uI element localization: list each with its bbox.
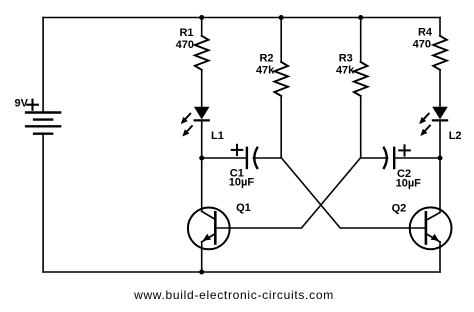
wire top rail to R3 (360, 18, 362, 63)
node Q1 emitter to bottom rail (199, 270, 204, 275)
svg-text:R2: R2 (259, 53, 273, 65)
LED L2 (432, 107, 448, 120)
LED L1 light arrow 1 (185, 114, 190, 120)
svg-text:R4: R4 (418, 26, 433, 38)
svg-text:9V: 9V (15, 98, 29, 110)
wire R3 to crossover (360, 96, 362, 158)
node L2 / C2 junction (438, 156, 443, 161)
LED L1 (194, 107, 210, 120)
node top of R1 (199, 15, 204, 20)
LED L2 light arrow 1 (423, 114, 428, 120)
svg-text:L2: L2 (449, 130, 462, 142)
wire top rail to R1 (201, 18, 203, 36)
svg-text:47k: 47k (256, 64, 275, 76)
svg-text:47k: 47k (336, 64, 355, 76)
svg-text:470: 470 (413, 39, 431, 51)
wire R2 to crossover (280, 96, 282, 158)
LED L2 light arrow 2 (425, 126, 430, 132)
battery B1 9V (26, 113, 60, 134)
wire cross-couple R2 to Q2 base (281, 158, 426, 228)
wire top rail to R2 (280, 18, 282, 63)
svg-text:10µF: 10µF (396, 177, 422, 189)
wire L2 to Q2 collector (439, 120, 441, 211)
C2 plus sign (399, 145, 410, 155)
resistor R3 (354, 62, 368, 96)
wire bottom rail (43, 271, 440, 273)
wire R3 node to C2 (361, 157, 388, 159)
wire L1 to Q1 collector (201, 120, 203, 211)
wire R4 to L2 (439, 70, 441, 107)
LED L1 light arrow 2 (187, 126, 192, 132)
wire R1 to L1 (201, 70, 203, 107)
svg-text:Q2: Q2 (392, 202, 407, 214)
wire cross-couple R3 to Q1 base (215, 158, 360, 228)
wire node to C1 plus plate (202, 157, 247, 159)
wire top rail to R4 (439, 18, 441, 36)
transistor Q1 (188, 208, 230, 250)
svg-text:www.build-electronic-circuits.: www.build-electronic-circuits.com (133, 288, 334, 302)
resistor R1 (195, 36, 209, 70)
svg-text:470: 470 (176, 39, 194, 51)
svg-text:R1: R1 (179, 27, 193, 39)
node top of R3 (358, 15, 363, 20)
wire C1 to R2 bottom (253, 157, 281, 159)
battery plus sign (27, 100, 38, 110)
resistor R4 (433, 36, 447, 70)
capacitor C1 (246, 148, 248, 168)
wire top rail (43, 17, 440, 19)
svg-text:R3: R3 (339, 53, 353, 65)
node L1 / C1 junction (199, 156, 204, 161)
wire Q2 emitter to bottom rail (439, 242, 441, 272)
wire Q1 emitter to bottom rail (201, 242, 203, 272)
capacitor C2 (384, 148, 387, 168)
svg-text:L1: L1 (211, 130, 224, 142)
wire left rail lower (battery - to bottom rail) (42, 134, 44, 272)
wire C2 to L2 node (394, 157, 440, 159)
svg-text:Q1: Q1 (236, 202, 251, 214)
resistor R2 (274, 62, 288, 96)
svg-text:10µF: 10µF (229, 177, 255, 189)
wire left rail upper (battery + to top rail) (42, 18, 44, 113)
C1 plus sign (232, 145, 243, 155)
transistor Q2 (410, 207, 452, 249)
node top of R2 (279, 15, 284, 20)
